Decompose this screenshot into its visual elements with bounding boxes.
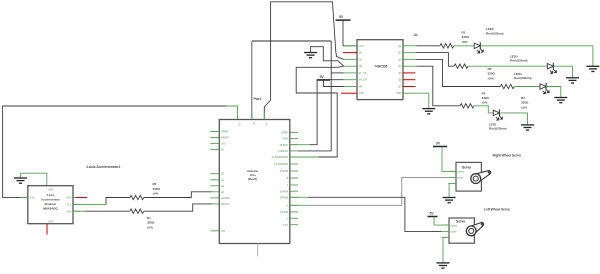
- 74HC595 left NC pin red: [343, 52, 357, 54]
- 74HC595 right NC pins red: [403, 73, 415, 87]
- accelerometer NC pin red right: [73, 197, 77, 199]
- wire LED3 to ground: [553, 66, 572, 78]
- wire Q2 to R5: [416, 53, 454, 67]
- svg-text:Left Wheel Servo: Left Wheel Servo: [484, 208, 510, 212]
- svg-text:SDA: SDA: [67, 210, 72, 213]
- svg-text:pulse: pulse: [451, 230, 458, 233]
- servo right wheel body: [456, 162, 481, 191]
- IC accelerometer MMA8452Q body: [28, 186, 73, 224]
- svg-text:3.3V: 3.3V: [30, 197, 35, 200]
- svg-text:SCL: SCL: [67, 204, 72, 207]
- svg-text:Red (633nm): Red (633nm): [510, 59, 528, 63]
- ground below 74HC595: [422, 109, 435, 114]
- Arduino bottom pin stub: [257, 244, 259, 257]
- wire R5 to LED3: [468, 65, 547, 67]
- LED LED2: [474, 42, 483, 53]
- svg-text:±5%: ±5%: [147, 225, 153, 229]
- servo2 pins: [442, 225, 450, 237]
- svg-text:R2: R2: [462, 31, 466, 35]
- 74HC595 left pins: [344, 46, 357, 87]
- svg-text:12/MISO: 12/MISO: [278, 150, 288, 153]
- Arduino right pins: [290, 132, 298, 224]
- 74HC595 pin labels: [359, 45, 403, 95]
- svg-text:5V: 5V: [221, 149, 224, 152]
- svg-text:IOREF: IOREF: [221, 131, 229, 134]
- svg-text:3-Axis: 3-Axis: [46, 193, 55, 197]
- svg-text:3 PWM: 3 PWM: [280, 211, 288, 214]
- svg-text:GND: GND: [396, 92, 402, 95]
- svg-text:3V3: 3V3: [221, 143, 226, 146]
- Arduino top pins: [252, 113, 264, 120]
- wire R1 to Arduino A4: [144, 204, 212, 211]
- accelerometer NC pin red bottom: [46, 224, 48, 235]
- wire LED4 to ground: [546, 87, 561, 98]
- svg-text:RESET: RESET: [221, 137, 230, 140]
- svg-text:A5/SCL: A5/SCL: [221, 203, 230, 206]
- LED LED3: [547, 63, 556, 74]
- svg-text:74HC595: 74HC595: [375, 64, 388, 68]
- accelerometer ground wire: [21, 173, 47, 186]
- IC Arduino Uno body: [219, 120, 289, 244]
- servo1 pins: [448, 171, 456, 183]
- svg-text:Q7S: Q7S: [359, 92, 364, 95]
- svg-text:10 PWM/SS: 10 PWM/SS: [274, 163, 288, 166]
- svg-text:±5%: ±5%: [488, 76, 494, 80]
- svg-text:VIN: VIN: [221, 230, 225, 233]
- svg-text:11 PWM/MOSI: 11 PWM/MOSI: [271, 156, 288, 159]
- LED LED4: [540, 83, 549, 94]
- ground near 74HC595 OE: [304, 53, 317, 58]
- svg-text:LED2: LED2: [486, 27, 494, 31]
- wire pin3 to 74HC595 DS: [264, 2, 343, 119]
- svg-text:power: power: [458, 171, 465, 174]
- svg-text:±5%: ±5%: [482, 101, 488, 105]
- svg-text:(Rev3): (Rev3): [248, 177, 257, 181]
- wire servo2 signal: [290, 196, 308, 198]
- wire servo1 signal: [290, 204, 310, 206]
- svg-text:A4/SDA: A4/SDA: [221, 197, 230, 200]
- svg-text:R1: R1: [147, 216, 151, 220]
- svg-text:13/SCK: 13/SCK: [279, 144, 288, 147]
- power 5V for 74HC595 VCC: [336, 19, 351, 21]
- svg-text:R5: R5: [488, 67, 492, 71]
- svg-text:U1: U1: [414, 33, 418, 37]
- svg-text:330Ω: 330Ω: [153, 187, 161, 191]
- wire servo2 gnd: [442, 238, 444, 263]
- svg-text:Red (633nm): Red (633nm): [486, 32, 504, 36]
- svg-text:330Ω: 330Ω: [147, 221, 155, 225]
- servo1 horn: [471, 171, 491, 184]
- wire accel SCL to R6: [73, 203, 106, 205]
- power 5V servo2: [428, 216, 438, 218]
- svg-text:GND: GND: [282, 138, 288, 141]
- wire R2 to LED2: [454, 45, 474, 47]
- wire 74HC595 GND to ground: [416, 93, 429, 108]
- Arduino left pins: [210, 132, 219, 231]
- svg-text:Red (633nm): Red (633nm): [489, 127, 507, 131]
- wire accel SDA to R1: [73, 210, 85, 212]
- power 5V servo1: [433, 146, 447, 148]
- svg-text:INT2: INT2: [48, 220, 54, 223]
- resistor R1: [130, 209, 144, 213]
- svg-text:MR: MR: [359, 86, 363, 89]
- svg-text:5 PWM: 5 PWM: [280, 196, 288, 199]
- 74HC595 right pins: [403, 46, 416, 93]
- wire pin2 to 74HC595 ST_CP riser: [251, 41, 253, 119]
- ground accelerometer: [14, 178, 27, 183]
- ground LED2: [586, 66, 599, 71]
- accelerometer right pins: [73, 204, 80, 211]
- wire R6 to Arduino A3: [144, 192, 212, 198]
- wire servo1 gnd: [448, 184, 450, 198]
- ground LED1: [521, 125, 534, 130]
- svg-text:ST_CP: ST_CP: [359, 72, 367, 75]
- svg-text:330Ω: 330Ω: [488, 72, 496, 76]
- svg-text:R6: R6: [153, 182, 157, 186]
- ground LED3: [566, 78, 579, 83]
- svg-text:6 PWM: 6 PWM: [280, 190, 288, 193]
- svg-text:pulse: pulse: [458, 177, 465, 180]
- accelerometer left pin: [21, 196, 28, 198]
- svg-text:5V: 5V: [252, 122, 255, 125]
- wire D13 riser: [290, 144, 310, 146]
- wire to LED4: [514, 86, 540, 88]
- svg-text:330Ω: 330Ω: [521, 101, 529, 105]
- ground servo2: [437, 263, 450, 268]
- svg-text:Pwr1: Pwr1: [254, 97, 262, 101]
- svg-text:Servo: Servo: [462, 165, 471, 169]
- wire LED2 to ground: [480, 46, 593, 67]
- svg-text:MMA8452Q: MMA8452Q: [43, 207, 58, 211]
- Arduino pin labels: [221, 131, 289, 233]
- ground LED4: [554, 98, 567, 103]
- resistor R4 (row D): [460, 104, 474, 108]
- svg-text:3-Axis Accelerometer1: 3-Axis Accelerometer1: [86, 165, 121, 169]
- svg-text:Red (633nm): Red (633nm): [514, 76, 532, 80]
- svg-text:VIN: VIN: [265, 122, 268, 126]
- IC 74HC595 U1 body: [357, 40, 403, 100]
- wire Q3 to R(row C): [416, 59, 500, 86]
- svg-text:Right Wheel Servo: Right Wheel Servo: [493, 154, 521, 158]
- resistor row C: [500, 84, 514, 88]
- svg-text:R3: R3: [521, 96, 525, 100]
- svg-text:±5%: ±5%: [521, 105, 527, 109]
- svg-text:VCC: VCC: [359, 45, 364, 48]
- svg-text:Breakout: Breakout: [45, 202, 57, 206]
- svg-text:power: power: [451, 224, 458, 227]
- svg-text:Servo: Servo: [456, 220, 465, 224]
- svg-text:GND: GND: [48, 189, 54, 192]
- servo left wheel body: [449, 218, 474, 243]
- wire Q1 to R2: [416, 45, 440, 47]
- svg-text:330Ω: 330Ω: [462, 35, 470, 39]
- svg-text:±5%: ±5%: [462, 40, 468, 44]
- svg-text:SH_CP: SH_CP: [359, 79, 368, 82]
- wire Q4 to R4: [416, 66, 460, 106]
- power 5V for 74HC595 MR: [317, 79, 330, 81]
- svg-text:OE: OE: [359, 65, 363, 68]
- svg-text:DS: DS: [359, 58, 363, 61]
- wire accel 3V3 long wire: [3, 106, 226, 197]
- svg-text:3V3: 3V3: [238, 122, 241, 127]
- svg-text:AREF: AREF: [281, 132, 288, 135]
- svg-text:330Ω: 330Ω: [482, 96, 490, 100]
- resistor R5: [454, 64, 468, 68]
- LED LED1: [493, 109, 502, 120]
- svg-text:1/TX: 1/TX: [283, 224, 289, 227]
- svg-text:Accelerometer: Accelerometer: [41, 198, 60, 202]
- wire R4 to LED1: [474, 106, 493, 113]
- wire LED1 to ground: [499, 113, 527, 125]
- servo2 horn: [466, 222, 483, 235]
- resistor R6: [130, 195, 144, 199]
- ground servo1: [443, 198, 456, 203]
- svg-text:±5%: ±5%: [153, 192, 159, 196]
- svg-text:R4: R4: [482, 91, 486, 95]
- wire D11 to SH_CP: [290, 156, 318, 158]
- 74HC595 left NC pin Q7S red: [341, 92, 357, 94]
- resistor R2: [440, 44, 454, 48]
- svg-text:9 PWM: 9 PWM: [280, 170, 288, 173]
- svg-text:INT1: INT1: [66, 197, 72, 200]
